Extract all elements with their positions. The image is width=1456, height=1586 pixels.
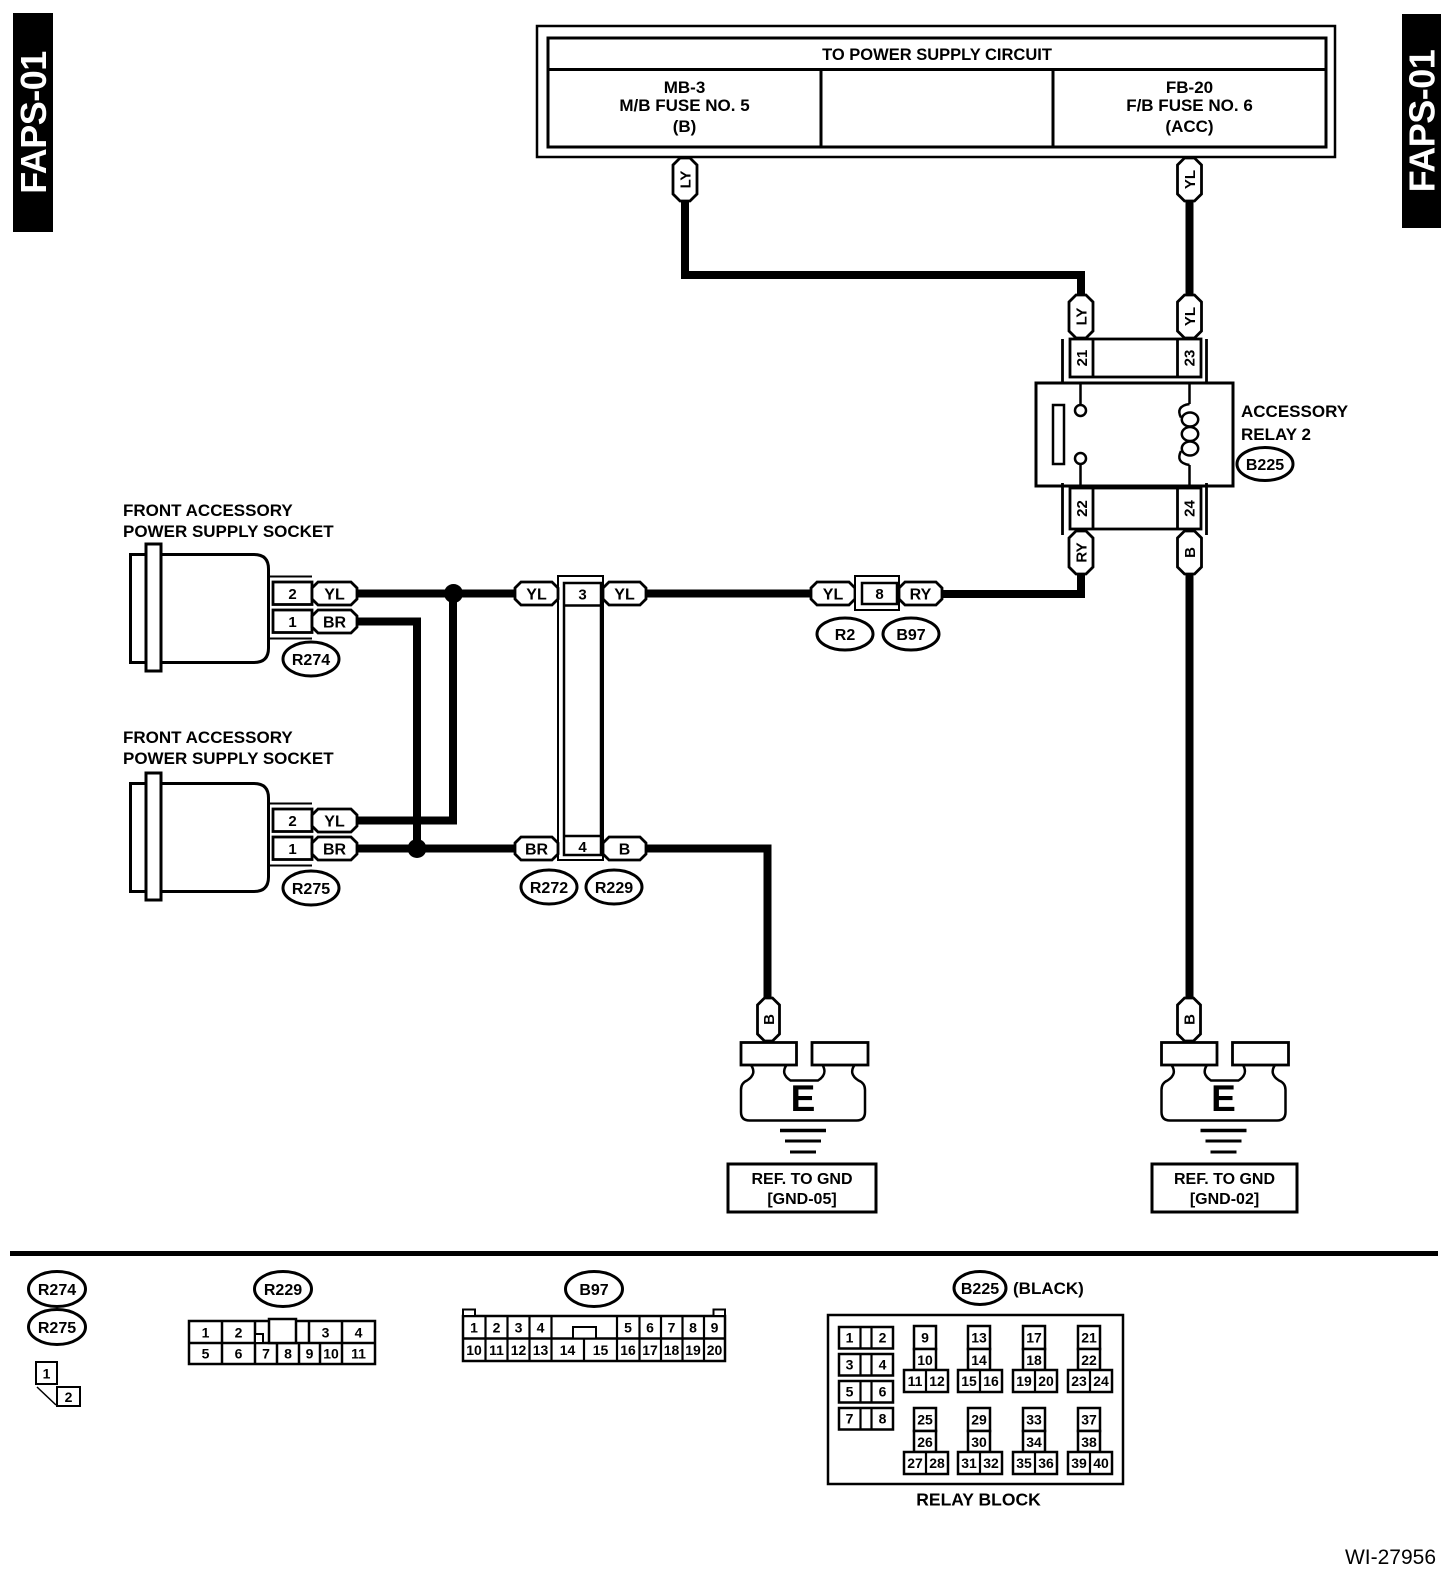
svg-text:13: 13 xyxy=(533,1342,549,1358)
svg-text:6: 6 xyxy=(879,1384,887,1400)
ground hatch GND-05 xyxy=(780,1129,826,1133)
svg-text:15: 15 xyxy=(593,1342,609,1358)
svg-text:30: 30 xyxy=(971,1434,987,1450)
svg-text:B97: B97 xyxy=(579,1282,608,1299)
svg-text:B: B xyxy=(1182,547,1199,558)
svg-text:1: 1 xyxy=(202,1325,210,1341)
oval R229 xyxy=(586,870,642,904)
svg-text:YL: YL xyxy=(526,586,547,603)
svg-text:POWER SUPPLY SOCKET: POWER SUPPLY SOCKET xyxy=(123,522,334,541)
svg-text:2: 2 xyxy=(288,586,296,603)
B97 connector face xyxy=(463,1316,725,1361)
relay coil xyxy=(1188,383,1191,404)
power supply circuit box xyxy=(537,26,1335,157)
svg-text:R275: R275 xyxy=(292,881,330,898)
svg-text:2: 2 xyxy=(879,1330,887,1346)
connector YL at relay pin 23 xyxy=(1178,295,1202,338)
socket R274 pin 2 xyxy=(273,582,312,605)
svg-text:FB-20: FB-20 xyxy=(1166,78,1213,97)
relay block footprint 29-32 xyxy=(968,1408,990,1431)
relay contact bar xyxy=(1053,405,1064,464)
svg-text:3: 3 xyxy=(578,587,586,604)
svg-text:F/B FUSE NO. 6: F/B FUSE NO. 6 xyxy=(1126,96,1253,115)
svg-text:33: 33 xyxy=(1026,1412,1042,1428)
svg-text:25: 25 xyxy=(917,1412,933,1428)
page label tab FAPS-01 right xyxy=(1402,14,1441,228)
svg-text:27: 27 xyxy=(907,1455,923,1471)
oval R274 xyxy=(283,642,339,676)
svg-text:(B): (B) xyxy=(673,117,697,136)
oval R272 xyxy=(521,870,577,904)
connector YL socket R274 pin 2 xyxy=(312,582,357,605)
relay block footprint 9-12 xyxy=(914,1326,936,1349)
svg-text:26: 26 xyxy=(917,1434,933,1450)
svg-text:20: 20 xyxy=(707,1342,723,1358)
wire B row4 to GND-05 xyxy=(646,849,768,1000)
junction A xyxy=(444,584,463,603)
svg-text:14: 14 xyxy=(971,1352,987,1368)
svg-text:2: 2 xyxy=(493,1320,501,1336)
connector LY under fuse box xyxy=(673,158,697,201)
svg-text:B97: B97 xyxy=(896,627,925,644)
svg-text:RY: RY xyxy=(910,586,932,603)
connector BR left of row 4 xyxy=(515,837,558,860)
svg-text:YL: YL xyxy=(1182,307,1199,326)
oval B97 xyxy=(883,618,939,650)
svg-text:4: 4 xyxy=(355,1325,363,1341)
relay block footprint 21-24 xyxy=(1078,1326,1100,1349)
svg-text:2: 2 xyxy=(235,1325,243,1341)
connector YL under fuse box xyxy=(1178,158,1202,201)
svg-text:11: 11 xyxy=(908,1373,923,1389)
oval B225 at relay xyxy=(1237,448,1293,481)
relay block footprint 33-36 xyxy=(1023,1408,1045,1431)
svg-text:23: 23 xyxy=(1071,1373,1087,1389)
svg-text:24: 24 xyxy=(1093,1373,1109,1389)
svg-text:POWER SUPPLY SOCKET: POWER SUPPLY SOCKET xyxy=(123,749,334,768)
socket R274 pin 1 xyxy=(273,610,312,633)
connector YL right of row 3 xyxy=(603,582,646,605)
svg-text:B225: B225 xyxy=(961,1281,999,1298)
svg-text:2: 2 xyxy=(288,813,296,830)
socket R274 body xyxy=(131,555,269,663)
svg-text:1: 1 xyxy=(43,1366,51,1382)
svg-text:13: 13 xyxy=(971,1330,987,1346)
ground terminal GND-05 tabs xyxy=(741,1043,797,1066)
ref to gnd GND-05 box xyxy=(728,1164,876,1212)
svg-text:[GND-05]: [GND-05] xyxy=(767,1191,836,1208)
svg-text:RELAY 2: RELAY 2 xyxy=(1241,425,1311,444)
oval R2 xyxy=(817,618,873,650)
svg-text:TO POWER SUPPLY CIRCUIT: TO POWER SUPPLY CIRCUIT xyxy=(822,46,1052,64)
relay block pins 3 4 xyxy=(839,1354,893,1376)
B97 key notch xyxy=(573,1327,596,1339)
relay pin row 21 23 xyxy=(1070,339,1201,377)
oval R274 bottom xyxy=(29,1272,86,1307)
svg-text:23: 23 xyxy=(1181,350,1198,367)
svg-text:21: 21 xyxy=(1081,1330,1097,1346)
svg-text:16: 16 xyxy=(620,1342,636,1358)
svg-text:22: 22 xyxy=(1081,1352,1097,1368)
svg-text:YL: YL xyxy=(614,586,635,603)
socket R275 pin bracket xyxy=(270,803,312,805)
svg-text:8: 8 xyxy=(689,1320,697,1336)
svg-text:5: 5 xyxy=(202,1346,210,1362)
svg-text:4: 4 xyxy=(537,1320,545,1336)
svg-text:B225: B225 xyxy=(1246,457,1284,474)
svg-text:38: 38 xyxy=(1081,1434,1097,1450)
svg-text:37: 37 xyxy=(1081,1412,1097,1428)
svg-text:WI-27956: WI-27956 xyxy=(1345,1546,1436,1569)
connector face diagonal xyxy=(37,1387,56,1405)
svg-text:REF. TO GND: REF. TO GND xyxy=(751,1171,852,1188)
svg-text:4: 4 xyxy=(879,1357,887,1373)
svg-text:28: 28 xyxy=(929,1455,945,1471)
wire RY from relay pin 22 to connector 8 xyxy=(942,573,1081,594)
svg-text:21: 21 xyxy=(1074,350,1091,367)
ground terminal GND-02 tabs xyxy=(1162,1043,1218,1066)
B97 corner tabs xyxy=(463,1310,475,1317)
ground terminal GND-05 body xyxy=(741,1065,865,1121)
svg-text:3: 3 xyxy=(322,1325,330,1341)
svg-text:18: 18 xyxy=(664,1342,680,1358)
svg-text:3: 3 xyxy=(515,1320,523,1336)
connector YL at R2 xyxy=(811,582,855,605)
svg-text:RELAY BLOCK: RELAY BLOCK xyxy=(916,1490,1041,1510)
svg-text:15: 15 xyxy=(961,1373,977,1389)
oval B97 bottom xyxy=(566,1272,623,1307)
svg-text:R229: R229 xyxy=(595,880,633,897)
relay pin row 22 24 xyxy=(1070,488,1201,529)
svg-text:YL: YL xyxy=(324,586,345,603)
svg-text:31: 31 xyxy=(961,1455,977,1471)
svg-text:8: 8 xyxy=(879,1411,887,1427)
svg-text:11: 11 xyxy=(489,1342,504,1358)
svg-text:E: E xyxy=(791,1078,816,1119)
svg-text:B: B xyxy=(761,1014,778,1025)
svg-text:17: 17 xyxy=(1026,1330,1042,1346)
svg-text:R275: R275 xyxy=(38,1320,76,1337)
R229 raised key box xyxy=(269,1319,296,1343)
svg-text:R229: R229 xyxy=(264,1282,302,1299)
svg-text:(ACC): (ACC) xyxy=(1165,117,1213,136)
svg-text:[GND-02]: [GND-02] xyxy=(1190,1191,1259,1208)
relay block footprint 13-16 xyxy=(968,1326,990,1349)
socket R275 body xyxy=(131,784,269,892)
svg-text:7: 7 xyxy=(846,1411,854,1427)
svg-text:6: 6 xyxy=(646,1320,654,1336)
svg-text:YL: YL xyxy=(1182,170,1199,189)
svg-text:B: B xyxy=(619,841,631,858)
svg-text:BR: BR xyxy=(525,841,549,858)
svg-text:LY: LY xyxy=(677,171,694,189)
svg-text:14: 14 xyxy=(560,1342,576,1358)
socket R275 pin 2 xyxy=(273,809,312,832)
svg-text:9: 9 xyxy=(921,1330,929,1346)
svg-text:24: 24 xyxy=(1181,500,1198,517)
relay contact terminals xyxy=(1079,383,1082,405)
svg-text:RY: RY xyxy=(1073,542,1090,562)
svg-text:9: 9 xyxy=(711,1320,719,1336)
oval R229 bottom xyxy=(255,1272,312,1307)
svg-text:R272: R272 xyxy=(530,880,568,897)
svg-text:4: 4 xyxy=(578,839,587,856)
svg-text:2: 2 xyxy=(65,1389,73,1405)
R274/R275 connector face pin 1 xyxy=(36,1362,57,1384)
svg-text:20: 20 xyxy=(1038,1373,1054,1389)
junction B xyxy=(408,839,427,858)
svg-text:MB-3: MB-3 xyxy=(664,78,706,97)
svg-text:39: 39 xyxy=(1071,1455,1087,1471)
wire YL row3 to connector 8 xyxy=(646,590,811,598)
ground hatch GND-02 xyxy=(1201,1129,1247,1133)
relay block footprint 37-40 xyxy=(1078,1408,1100,1431)
wire BR socket R275 to connector row 4 xyxy=(357,845,516,853)
svg-text:40: 40 xyxy=(1093,1455,1109,1471)
connector RY at B97 xyxy=(899,582,942,605)
wire BR socket R274 down to junction B xyxy=(357,622,417,849)
svg-text:10: 10 xyxy=(323,1346,339,1362)
svg-text:32: 32 xyxy=(983,1455,999,1471)
wire LY from fuse MB-3 to relay pin 21 xyxy=(685,199,1081,297)
svg-text:18: 18 xyxy=(1026,1352,1042,1368)
svg-text:5: 5 xyxy=(846,1384,854,1400)
svg-text:19: 19 xyxy=(685,1342,701,1358)
svg-text:10: 10 xyxy=(917,1352,933,1368)
svg-text:YL: YL xyxy=(324,813,345,830)
svg-text:BR: BR xyxy=(323,841,347,858)
bracket lines top pin row xyxy=(1061,339,1064,383)
R229 notch xyxy=(255,1334,263,1343)
connector YL left of row 3 xyxy=(515,582,558,605)
R274/R275 connector face pin 2 xyxy=(57,1387,80,1406)
relay block pins 7 8 xyxy=(839,1408,893,1430)
connector B right of row 4 xyxy=(603,837,646,860)
oval B225 bottom xyxy=(954,1272,1006,1305)
ground terminal GND-02 body xyxy=(1162,1065,1286,1121)
svg-text:29: 29 xyxy=(971,1412,987,1428)
svg-text:(BLACK): (BLACK) xyxy=(1013,1279,1084,1298)
svg-text:FAPS-01: FAPS-01 xyxy=(13,51,54,194)
connector BR socket R275 pin 1 xyxy=(312,837,357,860)
svg-text:REF. TO GND: REF. TO GND xyxy=(1174,1171,1275,1188)
svg-text:17: 17 xyxy=(642,1342,658,1358)
svg-text:1: 1 xyxy=(846,1330,854,1346)
wire B from relay pin 24 to GND-02 xyxy=(1186,573,1194,999)
svg-text:8: 8 xyxy=(284,1346,292,1362)
relay block pins 5 6 xyxy=(839,1381,893,1403)
svg-text:ACCESSORY: ACCESSORY xyxy=(1241,402,1349,421)
svg-text:FRONT ACCESSORY: FRONT ACCESSORY xyxy=(123,728,293,747)
svg-text:FAPS-01: FAPS-01 xyxy=(1402,49,1443,192)
wire YL from fuse FB-20 to relay pin 23 xyxy=(1186,199,1194,297)
svg-text:7: 7 xyxy=(262,1346,270,1362)
svg-text:1: 1 xyxy=(288,841,296,858)
socket R274 pin bracket xyxy=(270,576,312,578)
bracket lines bottom pin row xyxy=(1061,483,1064,535)
svg-text:5: 5 xyxy=(624,1320,632,1336)
svg-text:LY: LY xyxy=(1073,308,1090,326)
svg-text:16: 16 xyxy=(983,1373,999,1389)
svg-text:YL: YL xyxy=(823,586,844,603)
wire YL socket R275 up to junction A xyxy=(357,594,453,821)
connector YL socket R275 pin 2 xyxy=(312,809,357,832)
svg-text:19: 19 xyxy=(1016,1373,1032,1389)
connector LY at relay pin 21 xyxy=(1069,295,1093,338)
svg-text:8: 8 xyxy=(875,586,883,603)
socket R274 flange xyxy=(146,544,161,671)
relay block footprint 25-28 xyxy=(914,1408,936,1431)
svg-text:R274: R274 xyxy=(292,652,330,669)
inline connector R272 R229 body xyxy=(558,576,603,860)
row 4 cell xyxy=(564,835,601,838)
svg-text:1: 1 xyxy=(288,614,296,631)
svg-text:FRONT ACCESSORY: FRONT ACCESSORY xyxy=(123,501,293,520)
svg-text:12: 12 xyxy=(929,1373,945,1389)
inline connector pin 8 xyxy=(855,576,899,610)
oval R275 bottom xyxy=(29,1310,86,1345)
relay block footprint 17-20 xyxy=(1023,1326,1045,1349)
svg-text:35: 35 xyxy=(1016,1455,1032,1471)
socket R275 flange xyxy=(146,773,161,900)
svg-text:11: 11 xyxy=(351,1346,366,1362)
svg-text:12: 12 xyxy=(511,1342,527,1358)
svg-text:1: 1 xyxy=(470,1320,478,1336)
svg-text:M/B FUSE NO. 5: M/B FUSE NO. 5 xyxy=(619,96,749,115)
connector RY at relay pin 22 xyxy=(1069,531,1093,574)
svg-text:B: B xyxy=(1181,1014,1198,1025)
page label tab FAPS-01 left xyxy=(13,13,53,232)
ref to gnd GND-02 box xyxy=(1152,1164,1297,1212)
connector B at relay pin 24 xyxy=(1178,531,1202,574)
svg-text:36: 36 xyxy=(1038,1455,1054,1471)
svg-text:34: 34 xyxy=(1026,1434,1042,1450)
svg-text:10: 10 xyxy=(466,1342,482,1358)
connector BR socket R274 pin 1 xyxy=(312,610,357,633)
svg-text:R2: R2 xyxy=(835,627,856,644)
svg-text:6: 6 xyxy=(235,1346,243,1362)
relay B225 accessory relay 2 body xyxy=(1036,383,1233,486)
svg-text:BR: BR xyxy=(323,614,347,631)
separator rule xyxy=(10,1251,1438,1256)
R229 connector face xyxy=(189,1321,375,1364)
svg-text:9: 9 xyxy=(306,1346,314,1362)
svg-text:22: 22 xyxy=(1074,500,1091,517)
svg-text:R274: R274 xyxy=(38,1282,76,1299)
relay block pins 1 2 xyxy=(839,1327,893,1349)
wire YL socket R274 to junction xyxy=(357,590,516,598)
row 3 cell xyxy=(564,604,601,607)
oval R275 xyxy=(283,871,339,905)
socket R275 pin 1 xyxy=(273,837,312,860)
relay block outline xyxy=(828,1315,1123,1484)
svg-text:3: 3 xyxy=(846,1357,854,1373)
svg-text:7: 7 xyxy=(668,1320,676,1336)
svg-text:E: E xyxy=(1211,1078,1236,1119)
